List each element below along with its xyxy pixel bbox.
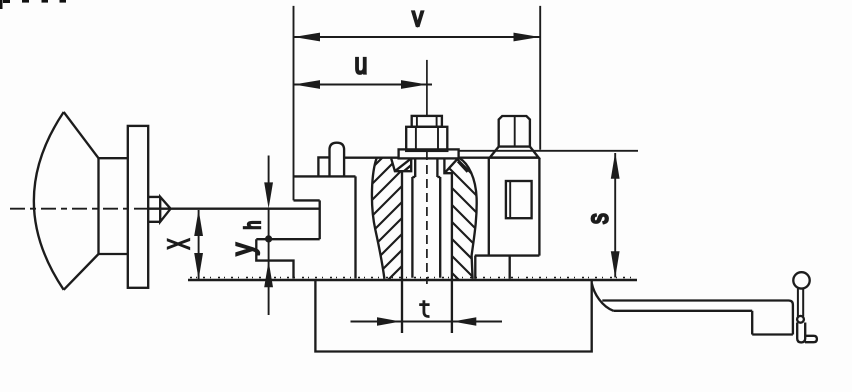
bolt top square xyxy=(412,116,442,127)
svg-text:h: h xyxy=(242,221,266,230)
s top reference line xyxy=(459,150,638,152)
boss left outline curve xyxy=(372,158,384,279)
apron top edge xyxy=(602,301,793,335)
dimension X arrow down xyxy=(194,253,203,279)
hex head facet xyxy=(514,116,516,147)
svg-text:v: v xyxy=(412,2,423,33)
bottom slide block xyxy=(315,280,591,352)
v arrow right xyxy=(514,33,540,42)
right wedge notch xyxy=(444,159,467,174)
bolt thread (upper) xyxy=(412,158,440,177)
h/y chain line xyxy=(268,209,270,315)
v arrow left xyxy=(294,33,320,42)
hex head skirt xyxy=(490,147,539,158)
bolt centerline upper xyxy=(426,60,428,116)
bolt centerline lower (dashed) xyxy=(426,151,428,284)
svg-text:s: s xyxy=(580,213,614,224)
svg-text:X: X xyxy=(163,239,197,250)
svg-text:u: u xyxy=(354,47,367,81)
v left extension / block left edge xyxy=(293,6,295,201)
dimension y arrow (up) xyxy=(264,261,273,287)
tool slot back xyxy=(319,200,321,239)
T-bolt hole left wall / t extension xyxy=(401,172,403,333)
clamp screw step xyxy=(318,157,329,176)
hex bolt head xyxy=(499,116,530,147)
svg-text:y: y xyxy=(225,243,259,255)
t arrow pointing left xyxy=(452,317,476,326)
node dot h/y xyxy=(265,235,272,242)
chuck back arc xyxy=(34,112,64,290)
v right extension xyxy=(539,6,541,150)
bolt shank xyxy=(412,177,440,278)
chuck body cylinder xyxy=(99,158,128,254)
hatched boss left column xyxy=(240,140,544,300)
dead center stub xyxy=(148,197,160,222)
dimension s line xyxy=(614,153,616,278)
apron inner edge xyxy=(613,310,752,312)
cropped dashed rule top-left xyxy=(0,0,66,9)
right block foot xyxy=(475,256,509,279)
lever joint ball xyxy=(797,316,804,323)
label t xyxy=(419,300,429,316)
right block xyxy=(475,158,540,256)
faceplate disk xyxy=(128,126,148,288)
holder base step xyxy=(256,239,293,278)
label h xyxy=(242,221,266,230)
boss right outline curve xyxy=(459,158,476,279)
label u xyxy=(354,47,367,81)
tool post right edge xyxy=(354,176,356,278)
nut xyxy=(406,127,447,151)
dimension t extensions given by hole walls above; t line left part xyxy=(351,321,503,323)
apron fillet curve xyxy=(592,283,614,310)
lever lower cylinder xyxy=(797,323,805,343)
u arrow right xyxy=(401,80,427,89)
washer plate xyxy=(399,149,459,158)
apron bottom edge xyxy=(752,333,793,335)
hatched boss right column xyxy=(302,140,632,300)
s arrow down xyxy=(611,251,620,277)
dead center cone xyxy=(160,197,170,222)
T-bolt hole right wall / t extension xyxy=(451,173,453,333)
slide top plate line xyxy=(344,157,539,159)
apron inner vertical xyxy=(751,311,753,335)
dimension u line xyxy=(294,84,432,86)
right block slot xyxy=(506,181,532,218)
dimension X arrow up xyxy=(194,210,203,236)
tool bottom edge xyxy=(256,238,319,240)
dimension X line xyxy=(198,210,200,279)
label y xyxy=(225,243,259,255)
t arrow pointing right xyxy=(377,317,401,326)
chuck cone top slant xyxy=(64,112,99,158)
u arrow left xyxy=(294,80,320,89)
s arrow up xyxy=(611,153,620,179)
tool post block top xyxy=(294,175,356,177)
left wedge notch xyxy=(391,159,411,172)
crank grip xyxy=(805,336,817,342)
centerline (dash-dot) of lathe axis xyxy=(10,208,148,210)
center-height line (solid, to tool post) xyxy=(148,208,320,210)
lever stem xyxy=(798,288,803,316)
dimension v line xyxy=(294,36,540,38)
chuck cone bottom slant xyxy=(64,254,99,290)
label v xyxy=(412,2,423,33)
label s xyxy=(580,213,614,224)
slideway surface (textured ground line) xyxy=(188,279,637,282)
dimension h arrow (down) xyxy=(268,156,270,191)
label X xyxy=(163,239,197,250)
clamp pin xyxy=(330,143,345,177)
handwheel ball xyxy=(793,272,809,288)
tool slot top xyxy=(294,199,320,201)
